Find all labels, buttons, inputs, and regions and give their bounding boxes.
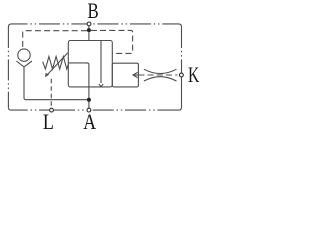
main valve U1 envelope	[68, 41, 112, 87]
svg-text:L: L	[43, 109, 54, 134]
enclosure boundary: top-right corner to port B	[91, 24, 182, 27]
wire: port B down to valve top	[88, 26, 90, 41]
main valve flow arrow	[100, 41, 102, 84]
drain line (dashed) to port L	[50, 79, 52, 109]
port L circle	[50, 108, 54, 112]
enclosure boundary: port L to port A	[54, 109, 86, 111]
spring (adjustable)	[43, 57, 69, 70]
spring adjustment arrow	[46, 53, 67, 76]
pilot piston box	[112, 63, 138, 87]
throttle orifice arcs	[144, 69, 177, 73]
enclosure boundary: bottom-left corner to port L	[8, 107, 49, 110]
check valve V1 seat	[16, 61, 32, 67]
main valve inner square	[68, 63, 89, 87]
wire: check valve down and right to node A	[24, 67, 87, 100]
wire: valve bottom to port A	[88, 87, 90, 108]
svg-text:A: A	[83, 109, 96, 134]
check valve V1 circle	[18, 49, 30, 61]
port A circle	[87, 108, 91, 112]
pilot line (dashed) node to check valve	[23, 31, 87, 49]
junction node dot at A	[87, 98, 91, 102]
svg-text:B: B	[88, 0, 99, 23]
pilot arrow inside box	[133, 74, 138, 76]
enclosure boundary: left edge top to bottom	[7, 27, 9, 107]
enclosure boundary: top-right corner down to port K	[181, 27, 183, 73]
pilot line (dashed) box to port K	[138, 74, 177, 76]
svg-text:K: K	[188, 62, 200, 87]
enclosure boundary: port K down to bottom-right corner	[179, 77, 182, 110]
enclosure boundary: bottom-right corner to port A	[91, 109, 179, 111]
pilot line (dashed) node to valve right side	[91, 30, 133, 53]
enclosure boundary: top-left corner to port B	[8, 24, 87, 27]
port B circle	[87, 22, 91, 26]
port K circle	[180, 73, 184, 77]
junction node dot	[87, 28, 91, 32]
